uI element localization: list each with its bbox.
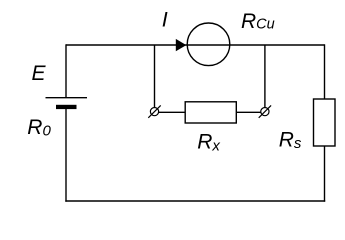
wire Rx left (159, 111, 186, 113)
wire drop left (154, 45, 156, 108)
terminal left slash (148, 105, 160, 117)
svg-text:Rx: Rx (197, 131, 220, 155)
wire right vertical lower (324, 146, 326, 202)
wire bottom horizontal (65, 200, 325, 202)
wire right vertical upper (324, 44, 326, 99)
battery E thick plate (56, 105, 77, 109)
svg-text:I: I (162, 8, 168, 32)
resistor Rs (314, 99, 336, 146)
svg-text:E: E (32, 62, 47, 85)
wire left vertical lower (65, 109, 67, 202)
svg-text:RCu: RCu (241, 10, 275, 33)
svg-text:R0: R0 (27, 116, 51, 140)
wire drop right (264, 45, 266, 108)
terminal left circle (150, 108, 158, 116)
battery E long plate (46, 97, 88, 99)
wire top horizontal (66, 44, 325, 46)
wire Rx right (236, 111, 260, 113)
ammeter circle (187, 23, 230, 66)
resistor Rx (185, 102, 236, 123)
terminal right slash (259, 105, 271, 117)
svg-text:Rs: Rs (279, 128, 302, 152)
terminal right circle (261, 108, 269, 116)
wire left vertical upper (65, 44, 67, 97)
current arrow I (176, 39, 187, 51)
